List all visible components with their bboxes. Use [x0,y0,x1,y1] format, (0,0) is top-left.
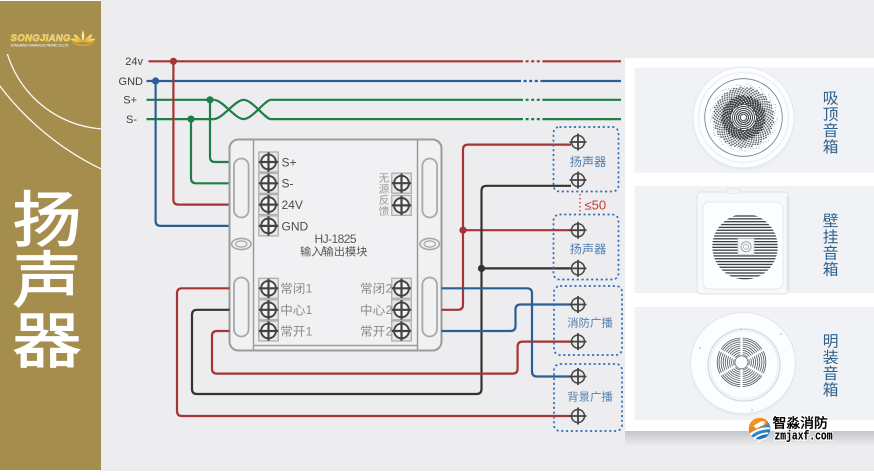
junction on GND bus [152,77,159,84]
svg-text:S+: S+ [123,95,137,107]
terminal module 中心2: screw [392,300,412,320]
terminal module GND: screw [259,216,279,236]
svg-text:S+: S+ [282,155,297,169]
card ceiling speaker [635,67,874,172]
surface speaker product image [691,313,796,417]
svg-text:S-: S- [282,177,294,191]
wire 常开2 to fire broadcast + (blue) [442,305,572,332]
label 吸顶音箱 [823,91,838,153]
svg-text:24v: 24v [125,56,143,68]
junction red at speaker2 + [459,227,466,234]
terminal module 常开2: screw [392,321,412,341]
module HJ-1825 input/output body [230,140,442,351]
svg-text:2: 2 [386,303,393,317]
terminal module 常闭1: screw [259,278,279,298]
terminal module feedback 2: screw [392,195,412,215]
module name HJ-1825 输入/输出模块 [300,232,367,258]
terminal speaker2 -: screw [572,262,585,275]
svg-text:1: 1 [306,303,313,317]
terminal speaker2 +: screw [572,224,585,237]
svg-text:GND: GND [119,76,144,88]
terminal module S+: screw [259,152,279,172]
terminal module 常开1: screw [259,321,279,341]
SONGJIANG logo [11,30,96,47]
speaker box 1 [554,127,619,192]
wire S- to module S- [191,119,230,183]
svg-text:HJ-1825: HJ-1825 [315,232,357,246]
junction on S+ bus [206,96,213,103]
sidebar title 扬声器 [15,190,80,367]
terminal background broadcast +: screw [572,370,585,383]
background broadcast box [554,364,622,431]
svg-text:2: 2 [386,282,393,296]
svg-text:GND: GND [282,219,309,233]
svg-text:1: 1 [306,324,313,338]
fire broadcast box [554,286,622,355]
svg-text:1: 1 [306,282,313,296]
card wall speaker [635,186,874,293]
terminal module 24V: screw [259,195,279,215]
ceiling speaker product image [692,67,796,172]
svg-text:SONGJIANG YUNAN ELECTRONIC CO.: SONGJIANG YUNAN ELECTRONIC CO.,LTD [11,44,70,48]
wire S- twisted pair [214,100,271,119]
terminal background broadcast -: screw [572,410,585,423]
wire 常开1 to fire broadcast - (red) [212,331,571,374]
wire 常闭2 to background broadcast + (blue) [442,288,572,376]
terminal module 常闭2: screw [392,278,412,298]
terminal speaker1 -: screw [572,174,585,187]
wire S+ twisted pair [214,100,271,119]
wire S+ to module S+ [210,100,230,162]
speaker box 2 [554,215,619,280]
wire GND to module GND [156,81,230,226]
terminal speaker1 +: screw [572,136,585,149]
terminal module 中心1: screw [259,300,279,320]
terminal fire broadcast +: screw [572,298,585,311]
svg-text:≤50: ≤50 [585,198,607,213]
right product panel [625,58,874,446]
terminal fire broadcast -: screw [572,335,585,348]
label 无源反馈 [379,173,389,216]
junction on 24v bus [170,58,177,65]
bus 24v [125,56,621,68]
wire 常闭1 to background broadcast - (red) [177,288,571,416]
label 明装音箱 [823,334,838,396]
bus GND [119,76,621,88]
zmjaxf logo [749,416,833,443]
card surface speaker [635,307,874,420]
wire 24v to module 24V [173,61,230,204]
terminal module feedback 1: screw [392,173,412,193]
label 壁挂音箱 [823,213,838,276]
bus S+ [123,95,621,120]
distance label ≤50 [580,194,606,213]
bus S- [126,100,621,126]
svg-text:2: 2 [386,324,393,338]
svg-text:S-: S- [126,114,137,126]
junction black at speaker2 - [478,265,485,272]
svg-text:24V: 24V [282,198,303,212]
junction on S- bus [187,116,194,123]
wire 中心1 to speaker1/speaker2 - (black) [192,186,571,394]
wire 中心2 to speaker1/speaker2 + (red) [442,145,572,310]
terminal module S-: screw [259,173,279,193]
svg-text:zmjaxf.com: zmjaxf.com [775,430,833,444]
wall speaker product image [697,189,789,295]
